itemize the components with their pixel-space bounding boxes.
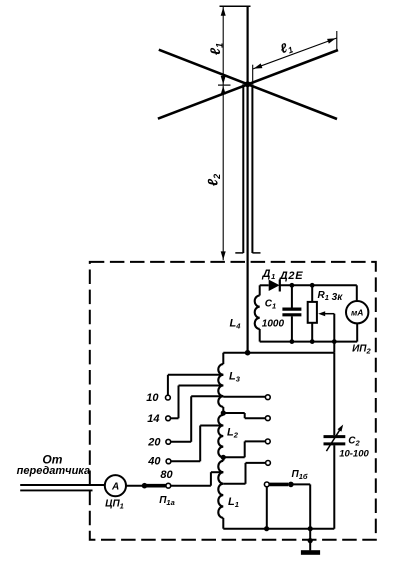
svg-text:Д1 Д2Е: Д1 Д2Е xyxy=(262,268,304,282)
svg-text:A: A xyxy=(111,481,119,492)
svg-text:10: 10 xyxy=(146,392,159,404)
svg-text:передатчика: передатчика xyxy=(17,465,90,477)
svg-text:1000: 1000 xyxy=(262,319,285,330)
svg-text:14: 14 xyxy=(147,413,159,425)
svg-text:40: 40 xyxy=(147,455,161,467)
svg-text:мА: мА xyxy=(351,308,363,318)
svg-text:20: 20 xyxy=(147,436,161,448)
svg-text:10-100: 10-100 xyxy=(339,448,369,459)
svg-text:80: 80 xyxy=(160,469,173,481)
